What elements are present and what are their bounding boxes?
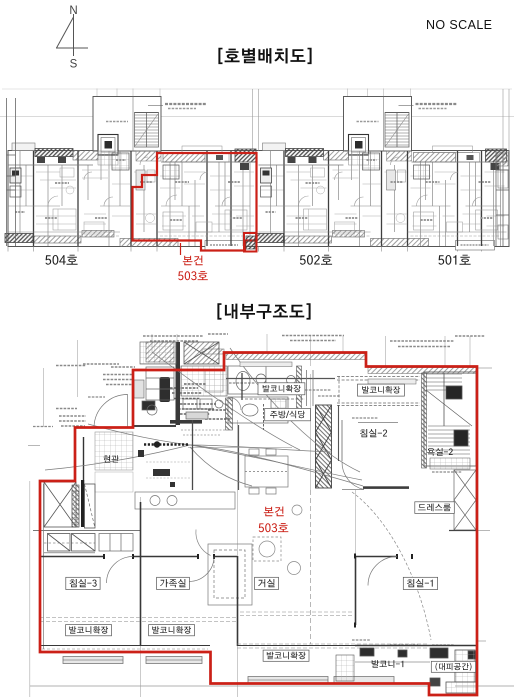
label 502호 [300,255,332,265]
bedroom-2 door arc [342,462,364,490]
label 501호 [438,255,470,265]
door arc kitchen passage [196,530,211,556]
bathroom extra fixtures and walls [133,342,239,490]
interior structure plan [내부구조도] drawing [28,334,514,697]
scale note NO SCALE [426,18,492,32]
wall bar below bathroom [170,420,202,424]
room label 침실-1 [403,577,437,589]
room label 드레스룸 [415,502,455,514]
balcony-1 and escape room fixtures [336,648,476,693]
entry tile floor [95,432,133,470]
leader curves [45,348,363,486]
building outline band [8,151,509,247]
room label 욕실-2 [427,448,453,456]
red leader tick to 503 label [180,243,182,255]
wall line beside entry [83,437,85,522]
kitchen counters [135,492,252,605]
room label 발코니확장 (bottom living) [263,650,309,661]
entry door arc [94,395,128,428]
hatched pier column center [316,405,332,488]
label 본건 (bottom, red) [264,507,284,517]
red outline of unit 503 on structure plan [40,353,477,696]
door jamb ticks [103,554,413,628]
room label 발코니확장 (top left) [258,383,305,395]
bathroom partition wall [297,366,302,420]
room label (대피공간) [431,661,475,672]
dark hatch strip corridor [72,485,79,527]
room label 침실-3 [66,577,100,589]
interior walls lower zone [40,502,477,646]
label 본건 (top, red) [183,256,203,266]
bedroom-2 side wall [341,420,343,461]
dining table [245,449,288,494]
title 내부구조도 [217,303,310,319]
building right end cap [496,151,509,247]
horizontal guide line [0,116,514,118]
left wall closets with X bracing [33,480,140,553]
junction box and dimension bar [138,420,292,490]
title 호별배치도 [218,48,311,64]
room label 발코니확장 (bottom left) [66,625,112,636]
closet row above bedroom-3 [99,534,133,552]
room label 현관 [104,455,119,462]
compass north arrow [0,0,110,80]
room label 발코니-1 [372,660,404,668]
room label 거실 [255,577,279,589]
AC unit hatch in annex [246,236,255,249]
window marks upper right rooms [226,362,421,489]
horizontal guide line top [2,88,512,90]
annotation texts (illegible small print) [33,334,485,645]
room label 발코니확장 (bottom middle) [149,625,195,636]
dark fixture (boiler) [160,377,171,402]
bathroom fixtures [140,342,296,423]
bedroom-1 door arc [368,557,397,586]
wardrobe along right wall [449,470,477,531]
wall line along left edge [43,484,45,649]
balcony dashed lines (bottom left) [40,612,429,649]
unit section at x=0 [5,89,259,252]
living room furniture circles [253,505,302,575]
family room door arc [189,557,214,582]
site layout plan [호별배치도] drawing [0,89,514,252]
hatched wall strip along top (center) [226,354,365,360]
hatched wall strip along top (right) [368,368,476,374]
grid guide lines [28,334,514,697]
bedroom-3 door arc [107,557,134,584]
label 503호 (bottom, red) [259,523,289,532]
unit section at x=250.5 [256,89,510,252]
hatched wall strip along top (left) [202,349,224,354]
living room divider dashed [310,490,312,644]
building left end cap [7,98,16,246]
red outline of unit 503 on layout plan [133,153,257,252]
label 503호 (top, red) [178,271,208,280]
window frames below balcony wall [63,657,394,684]
room label 주방/식당 [265,408,311,420]
label 504호 [45,255,77,265]
stair core (right) [422,372,477,469]
room label 가족실 [157,577,190,589]
room label 침실-2 [360,429,387,437]
room label 발코니확장 (top right) [358,384,405,396]
escape route dashed arc [352,492,431,640]
thick wall left of bathroom [176,342,181,425]
crossed box (duct) top-left [184,342,219,364]
